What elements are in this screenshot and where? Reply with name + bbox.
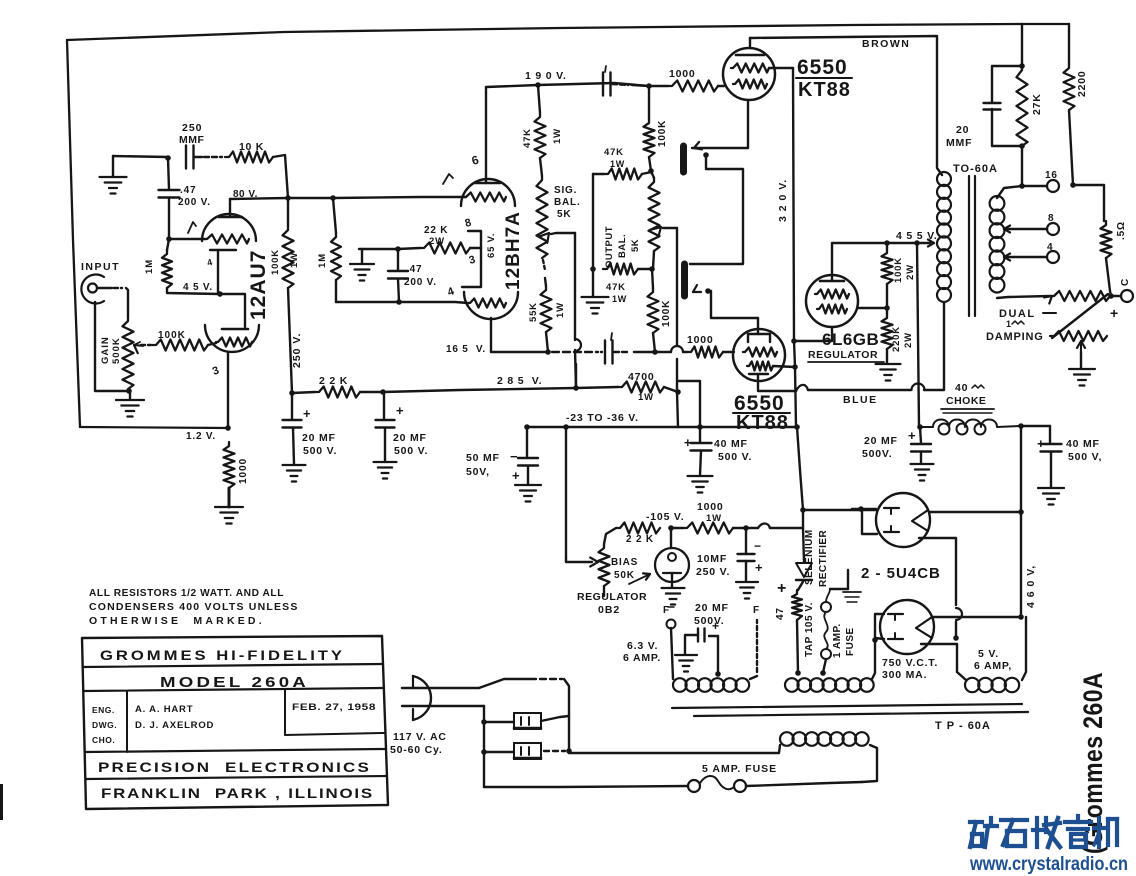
resistor 22K decoupling (315, 387, 360, 398)
wire .5 to C terminal (1106, 258, 1111, 296)
wire 190V rail (486, 85, 538, 88)
svg-text:250: 250 (182, 122, 203, 134)
svg-text:2 8 5 V.: 2 8 5 V. (497, 375, 542, 387)
resistor 1000 cathode (224, 442, 235, 488)
svg-text:GROMMES HI-FIDELITY: GROMMES HI-FIDELITY (100, 647, 345, 663)
arrow to 0B2 (629, 575, 648, 584)
wire 45V node (167, 288, 220, 294)
svg-text:SIG.: SIG. (554, 185, 577, 196)
capacitor 10MF 250V (745, 528, 747, 553)
svg-text:+: + (396, 403, 404, 418)
V6 cathode lead down (919, 538, 956, 605)
svg-text:+: + (512, 468, 520, 483)
resistor 100K grid (152, 340, 208, 351)
svg-text:200 V.: 200 V. (404, 277, 437, 288)
wire OUTPUT BAL wiper (663, 227, 677, 229)
wire gain wiper to 100K (141, 344, 151, 346)
resistor 100K grid upper (644, 119, 655, 157)
resistor 100K grid lower (648, 288, 659, 333)
svg-text:3: 3 (211, 364, 222, 378)
svg-text:40: 40 (955, 382, 968, 394)
svg-text:20 MF: 20 MF (695, 602, 729, 614)
svg-text:SELENIUM: SELENIUM (804, 529, 815, 585)
node 460V top (1018, 423, 1024, 429)
V1B grid zigzag (216, 338, 252, 347)
wire -36V rail (527, 426, 678, 428)
wire bottom fuse line (484, 786, 688, 787)
capacitor .47 200V no2 (397, 249, 399, 270)
svg-text:100K: 100K (270, 249, 281, 275)
V4 screen zigzag (747, 362, 773, 371)
V7 cathode to 5V winding (921, 644, 957, 672)
wire V4 screen to 320V line (773, 366, 795, 367)
selenium rectifier (796, 563, 812, 577)
ground 47K tail (582, 296, 609, 298)
resistor 100K 2W (882, 249, 893, 284)
hop 165V over wiper column (575, 339, 581, 351)
pin 7 arrow 12BH7A (443, 174, 453, 184)
title row line 1 (83, 664, 382, 667)
5V winding leads (957, 672, 966, 680)
svg-text:-105 V.: -105 V. (646, 511, 685, 523)
svg-text:1W: 1W (638, 392, 654, 403)
svg-text:2W: 2W (903, 332, 914, 348)
svg-text:4: 4 (1047, 242, 1053, 253)
wire 80V to 12BH7A grid (462, 196, 466, 198)
svg-text:4: 4 (446, 285, 457, 299)
tube V4 6550 lower envelope (733, 329, 785, 381)
title cell divider eng (126, 691, 128, 752)
svg-text:5 V.: 5 V. (978, 648, 999, 660)
capacitor 40MF output (1049, 426, 1051, 443)
svg-text:F: F (753, 605, 760, 616)
svg-text:4 6 0 V,: 4 6 0 V, (1025, 565, 1037, 608)
wire 1000 to ground (228, 488, 231, 507)
wire 165V to cap (601, 351, 602, 353)
svg-text:20: 20 (956, 124, 969, 136)
svg-text:100K: 100K (893, 257, 904, 283)
svg-text:55K: 55K (528, 302, 539, 322)
V2A grid zigzag (464, 193, 506, 202)
PT 6.3V winding (673, 678, 687, 692)
svg-text:2 2 K: 2 2 K (626, 534, 654, 545)
svg-text:6550: 6550 (797, 56, 848, 79)
svg-text:1000: 1000 (697, 501, 724, 513)
svg-text:MMF: MMF (946, 137, 972, 149)
wire jack sleeve down (95, 302, 128, 391)
svg-text:500 V.: 500 V. (718, 451, 752, 463)
svg-text:3 2 0 V.: 3 2 0 V. (777, 179, 789, 222)
OPT secondary bottom lead (997, 296, 1050, 298)
capacitor coupling upper .1 (602, 73, 604, 96)
node -105V (668, 525, 674, 531)
title row line 3 (86, 749, 385, 752)
triode V2A 12BH7A upper envelope (461, 179, 515, 206)
PT 5V winding (965, 678, 979, 692)
svg-text:+: + (755, 560, 763, 575)
watermark char kuang (970, 820, 982, 824)
svg-text:4700: 4700 (628, 371, 655, 383)
title cell date bottom (285, 733, 384, 735)
svg-text:1W: 1W (552, 128, 563, 144)
wire bias jog (678, 381, 700, 427)
svg-text:1M: 1M (144, 259, 155, 274)
wire V4 cathode to blue (758, 374, 796, 391)
svg-text:40 MF: 40 MF (1066, 438, 1100, 450)
V5 cathode zigzag (817, 305, 847, 314)
V6 filament marks (884, 507, 899, 509)
svg-text:20 MF: 20 MF (393, 432, 427, 444)
terminal C (1121, 290, 1133, 302)
triode V1B 12AU7 lower envelope (205, 325, 259, 352)
ground input (116, 399, 144, 401)
svg-text:DUAL: DUAL (999, 308, 1036, 320)
fuse 1 AMP (821, 602, 831, 612)
svg-text:750 V.C.T.: 750 V.C.T. (882, 657, 938, 669)
svg-text:BAL.: BAL. (617, 234, 628, 258)
V5 grid zigzag (815, 290, 849, 299)
watermark char shi (1001, 818, 1027, 822)
potentiometer SIG BAL 5K (537, 176, 548, 258)
node 27K top (1019, 63, 1025, 69)
svg-text:65 V.: 65 V. (486, 233, 497, 258)
input jack J1 (81, 275, 104, 304)
svg-text:1W: 1W (555, 302, 566, 318)
V6 plate mark (912, 510, 928, 531)
svg-text:4 5 V.: 4 5 V. (183, 282, 213, 293)
svg-text:BROWN: BROWN (862, 38, 910, 50)
resistor damping upper 1ohm (1050, 291, 1110, 301)
svg-text:BIAS: BIAS (611, 557, 638, 568)
svg-text:2W: 2W (905, 264, 916, 280)
title block outer box (82, 636, 388, 809)
svg-text:KT88: KT88 (798, 79, 851, 101)
6.3V winding right lead (750, 676, 757, 679)
svg-text:6: 6 (470, 152, 481, 167)
V2B grid zigzag (468, 299, 506, 308)
svg-text:50K: 50K (614, 570, 635, 581)
tube V6 5U4GB no1 (876, 493, 930, 547)
wire to 5U4 no1 filament (803, 509, 876, 511)
svg-text:1000: 1000 (669, 68, 696, 80)
svg-text:27K: 27K (1031, 93, 1043, 115)
V3 grid zigzag (731, 64, 769, 73)
svg-text:+: + (777, 580, 787, 597)
OPT secondary coil (990, 196, 1005, 211)
V7 plate mark (916, 617, 932, 638)
V4 cathode bar (749, 373, 768, 375)
svg-text:1W: 1W (289, 252, 300, 268)
HV tap fuse lead (820, 670, 826, 676)
V4 plate box (748, 334, 770, 342)
watermark char shou (1035, 818, 1039, 847)
svg-text:DWG.: DWG. (92, 720, 117, 730)
svg-text:50-60 Cy.: 50-60 Cy. (390, 744, 443, 756)
svg-text:16: 16 (1045, 170, 1058, 181)
resistor 1M no2 (331, 233, 341, 280)
svg-text:500V.: 500V. (862, 448, 892, 460)
wire 460V line (1020, 426, 1022, 617)
svg-text:47: 47 (775, 607, 786, 620)
resistor .5 ohm (1101, 221, 1112, 258)
wire choke feed down (917, 243, 919, 427)
V4 grid zigzag (743, 348, 777, 357)
wire top border feedback line (67, 24, 1022, 40)
OPT primary bar lower (681, 264, 688, 296)
resistor 47K 1W no3 (603, 264, 638, 275)
wire V1A plate to 80V rail (230, 198, 288, 199)
svg-text:KT88: KT88 (736, 412, 789, 434)
capacitor 20MF 6.3V (697, 629, 699, 642)
resistor 47K 1W no1 vertical (535, 113, 546, 158)
arrow to OPT upper (694, 142, 699, 148)
6.3V center tap (715, 671, 721, 677)
ground cathode 1000 (215, 506, 243, 508)
potentiometer BIAS 50K (599, 544, 610, 586)
capacitor 40MF 500V bias (699, 427, 701, 442)
svg-text:250 V.: 250 V. (291, 333, 303, 368)
tube V5 6L6GB envelope (806, 275, 858, 327)
svg-text:50 MF: 50 MF (466, 452, 500, 464)
svg-text:FEB. 27, 1958: FEB. 27, 1958 (292, 702, 376, 713)
wire prong lower down (483, 706, 485, 787)
svg-text:-23 TO -36 V.: -23 TO -36 V. (566, 412, 639, 424)
terminal 16 (1022, 185, 1047, 187)
svg-text:FRANKLIN PARK , ILLINOIS: FRANKLIN PARK , ILLINOIS (101, 785, 374, 801)
svg-text:ALL RESISTORS 1/2 WATT. AND AL: ALL RESISTORS 1/2 WATT. AND ALL (89, 587, 284, 599)
svg-text:100K: 100K (661, 300, 672, 327)
wire cathode to plate V1B (220, 294, 245, 327)
wire bias feed right (746, 527, 758, 529)
PT HV winding (785, 678, 799, 692)
ground 250MMF (100, 176, 127, 178)
V6 plate lead to 460V (930, 511, 1021, 513)
svg-text:2W: 2W (429, 236, 445, 247)
wire bias column x677 (676, 228, 678, 345)
svg-text:22 K: 22 K (424, 225, 448, 236)
wire left border feedback line (67, 40, 80, 427)
svg-text:6L6GB: 6L6GB (822, 330, 879, 349)
svg-text:www.crystalradio.cn: www.crystalradio.cn (969, 854, 1128, 875)
svg-text:6 AMP,: 6 AMP, (974, 660, 1012, 672)
V5 bottom lead (794, 327, 832, 341)
svg-text:MODEL 260A: MODEL 260A (160, 675, 309, 691)
svg-text:2 - 5U4CB: 2 - 5U4CB (861, 565, 941, 582)
6.3V winding left lead (671, 628, 673, 679)
svg-text:500V.: 500V. (694, 615, 724, 627)
cathode bracket 12BH7A (462, 231, 481, 287)
svg-text:12BH7A: 12BH7A (503, 211, 524, 290)
svg-text:+: + (908, 428, 916, 443)
svg-text:OUTPUT: OUTPUT (604, 226, 615, 268)
OPT secondary top lead (997, 186, 1022, 198)
svg-text:47K: 47K (522, 128, 533, 148)
wire V3 grid to 320V line (769, 67, 793, 69)
node OPT tap upper (703, 152, 709, 158)
svg-text:INPUT: INPUT (81, 261, 120, 273)
wire 455V tap to choke node (917, 424, 923, 430)
resistor 47K 1W no2 (604, 169, 642, 180)
svg-text:1000: 1000 (238, 458, 249, 484)
wire 2200 to damping (1069, 110, 1073, 185)
svg-text:RECTIFIER: RECTIFIER (818, 529, 829, 587)
ground divider (886, 349, 888, 363)
svg-text:PRECISION ELECTRONICS: PRECISION ELECTRONICS (98, 759, 371, 775)
svg-text:GAIN: GAIN (100, 336, 111, 364)
resistor 1M V1A grid leak (162, 250, 172, 288)
resistor damping lower 1ohm (1050, 331, 1107, 341)
svg-text:.5Ω: .5Ω (1116, 221, 1127, 240)
wire 249 node (359, 248, 398, 250)
svg-text:CONDENSERS 400 VOLTS UNLESS: CONDENSERS 400 VOLTS UNLESS (89, 601, 299, 613)
wire selenium feed (797, 427, 803, 510)
V3 cathode zigzag (733, 80, 767, 89)
node divider (886, 284, 888, 314)
svg-text:1W: 1W (610, 159, 625, 169)
title row line 2 (84, 688, 383, 691)
tap 8 (1004, 226, 1010, 230)
ground 22K2W node (350, 263, 374, 265)
OPT primary bar upper (680, 146, 687, 172)
svg-text:5 AMP. FUSE: 5 AMP. FUSE (702, 763, 777, 775)
svg-text:FUSE: FUSE (845, 627, 856, 656)
svg-text:12AU7: 12AU7 (247, 250, 270, 320)
svg-text:47K: 47K (606, 282, 626, 293)
resistor 1000 grid stopper upper (668, 81, 718, 92)
V7 left bracket (875, 614, 884, 639)
svg-text:5K: 5K (557, 209, 571, 220)
OPT primary coil (937, 172, 951, 186)
svg-text:1M: 1M (317, 253, 328, 268)
svg-text:3: 3 (468, 254, 478, 267)
potentiometer GAIN 500K (123, 317, 134, 389)
svg-text:1.2 V.: 1.2 V. (186, 431, 216, 442)
wire jack to gain pot (97, 287, 112, 289)
tube V3 6550 upper envelope (723, 48, 775, 100)
triode V2B 12BH7A lower envelope (464, 292, 518, 319)
svg-text:6.3 V.: 6.3 V. (627, 640, 658, 652)
capacitor 50MF 50V (526, 427, 528, 457)
resistor 22K 2W (420, 243, 470, 254)
capacitor 20 MMF (992, 66, 1022, 102)
potentiometer OUTPUT BAL 5K (649, 178, 660, 251)
svg-text:T P - 60A: T P - 60A (935, 720, 991, 732)
svg-text:500 V.: 500 V. (303, 445, 337, 457)
svg-text:+: + (303, 406, 311, 421)
terminal F1 (667, 620, 676, 629)
svg-text:50V,: 50V, (466, 466, 490, 478)
wire V5 side to divider (858, 307, 887, 309)
svg-text:−: − (754, 539, 762, 553)
wire stub 285V (575, 364, 577, 388)
wire top border to 2200 corner (1022, 23, 1069, 25)
svg-text:OTHERWISE MARKED.: OTHERWISE MARKED. (89, 615, 265, 627)
wire damping diagonal (1052, 294, 1108, 338)
wire brown plate line (750, 36, 942, 175)
svg-text:C: C (1120, 278, 1131, 286)
capacitor 20MF 500V no1 (291, 393, 293, 419)
wire 455V rail (887, 242, 917, 244)
svg-text:REGULATOR: REGULATOR (577, 591, 647, 603)
wire SIG wiper to ground column (551, 233, 575, 234)
svg-text:1W: 1W (612, 294, 627, 304)
wire lower grid line hop (655, 351, 671, 353)
svg-text:1 AMP.: 1 AMP. (832, 623, 843, 658)
wire 47K tail column (592, 174, 594, 269)
arrow damping wiper (1081, 341, 1085, 348)
resistor 220K 2W (882, 314, 893, 349)
svg-text:500K: 500K (111, 337, 122, 364)
HV right lead (872, 640, 875, 679)
svg-text:10 K: 10 K (239, 141, 264, 153)
resistor 1000 grid stopper lower (687, 347, 723, 358)
svg-text:BAL.: BAL. (554, 197, 581, 208)
V1A grid zigzag (205, 235, 249, 244)
choke coil (920, 420, 1019, 428)
plug prong lower (402, 705, 484, 707)
svg-text:0B2: 0B2 (598, 604, 620, 616)
V7 filament marks (888, 613, 903, 615)
svg-text:+: + (1110, 305, 1119, 321)
wire cap to 1000 node upper (612, 84, 628, 85)
ground 0B2 (662, 587, 685, 589)
V3 cathode lead down (692, 100, 748, 148)
svg-text:8: 8 (1048, 213, 1054, 224)
wire damping to ground (1080, 352, 1082, 368)
pin 7 arrow mark (188, 222, 196, 233)
switch contact upper (514, 713, 541, 729)
svg-text:20 MF: 20 MF (864, 435, 898, 447)
fuse 5 AMP (688, 780, 700, 792)
title cell divider date (284, 690, 286, 735)
resistor 1000 1W bias (683, 523, 733, 534)
svg-text:300 MA.: 300 MA. (882, 669, 927, 681)
svg-text:.47: .47 (406, 264, 422, 275)
resistor 27K (1017, 66, 1028, 146)
left edge mark (0, 784, 3, 820)
svg-text:D. J. AXELROD: D. J. AXELROD (135, 720, 214, 731)
V5 plate (820, 280, 844, 283)
svg-text:4 5 5 V.: 4 5 5 V. (896, 230, 938, 242)
V2B cathode lead (490, 318, 492, 352)
resistor 10K feedback (225, 152, 273, 163)
AC plug (413, 676, 431, 720)
resistor 47 bias (792, 590, 802, 620)
node 22K left (289, 390, 295, 396)
V1A plate (219, 216, 242, 219)
svg-text:10MF: 10MF (697, 553, 727, 565)
svg-text:TAP 105 V.: TAP 105 V. (804, 602, 815, 657)
wire cap to 10K (194, 156, 202, 158)
plug prong upper (402, 687, 479, 689)
svg-text:A. A. HART: A. A. HART (135, 704, 193, 715)
resistor 4700 1W (618, 382, 664, 393)
HV tap 47 lead (795, 670, 801, 676)
svg-text:16 5 V.: 16 5 V. (446, 344, 486, 355)
node gain pot bottom / ground (126, 388, 132, 394)
svg-text:1000: 1000 (687, 334, 714, 346)
V1B plate (222, 328, 248, 331)
wire 100K to 12AU7 grid (208, 343, 216, 345)
wire prong upper to transformer (479, 679, 536, 688)
svg-text:1: 1 (1006, 319, 1012, 329)
svg-text:2 2 K: 2 2 K (319, 375, 348, 387)
svg-text:REGULATOR: REGULATOR (808, 349, 878, 361)
triode V1A 12AU7 upper envelope (202, 214, 256, 241)
PT core lines (672, 704, 1022, 708)
wire 27K bottom to 16 (1021, 146, 1023, 186)
svg-text:5K: 5K (630, 239, 641, 252)
